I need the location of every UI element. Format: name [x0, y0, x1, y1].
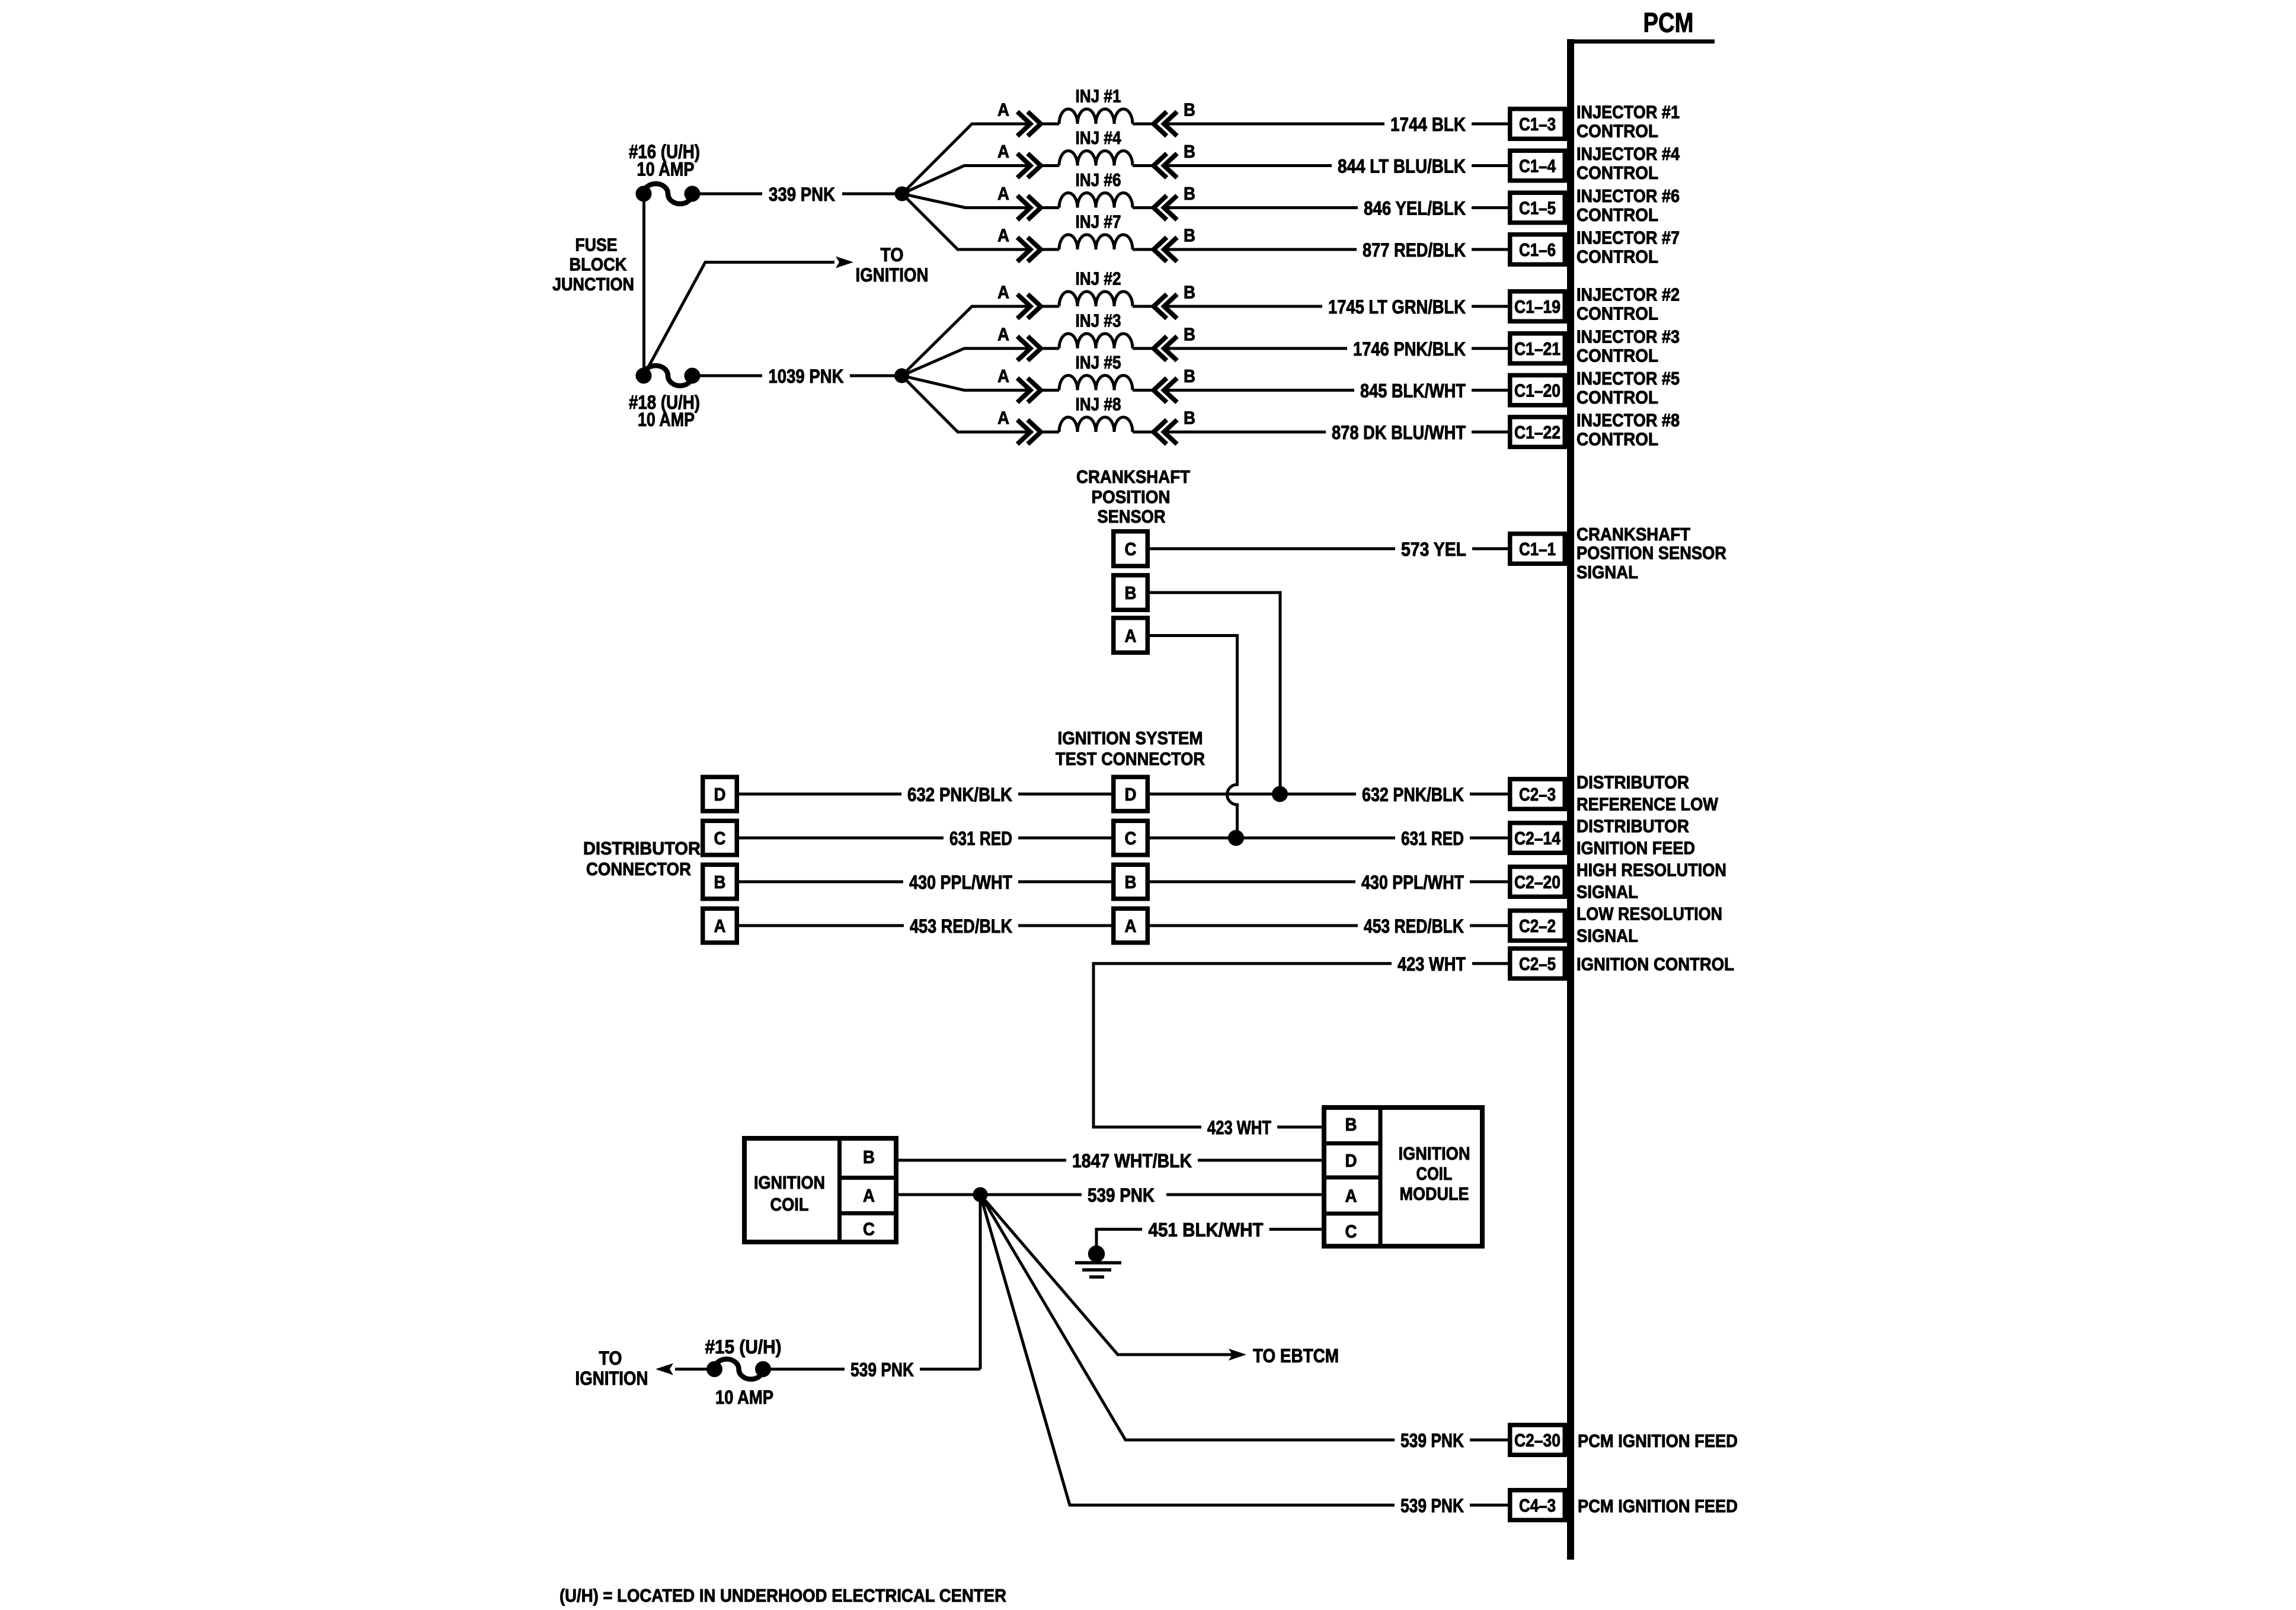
fuse #15 (U/H) 10 AMP — [707, 1359, 771, 1379]
fuse #18 (U/H) 10 AMP — [636, 366, 700, 386]
injector solenoid coil INJ #6 — [1041, 193, 1154, 208]
svg-text:INJ #3: INJ #3 — [1076, 311, 1121, 331]
fuse block junction bus wire — [642, 194, 645, 376]
svg-text:845 BLK/WHT: 845 BLK/WHT — [1360, 380, 1466, 402]
svg-text:INJ #6: INJ #6 — [1076, 169, 1121, 190]
svg-text:A: A — [997, 183, 1009, 204]
svg-text:1745 LT GRN/BLK: 1745 LT GRN/BLK — [1328, 296, 1466, 318]
wire 430 PPL/WHT test connector to PCM C2-20 — [1150, 872, 1508, 893]
injector solenoid coil INJ #2 — [1041, 292, 1154, 306]
wire 539 PNK fuse #15 to splice — [770, 1359, 980, 1381]
svg-text:A: A — [997, 408, 1009, 428]
svg-text:430 PPL/WHT: 430 PPL/WHT — [1361, 872, 1464, 893]
wire fan branch to INJ #6 pin A — [902, 194, 1031, 208]
svg-text:C2–30: C2–30 — [1514, 1430, 1560, 1451]
wire fan branch to INJ #4 pin A — [902, 166, 1031, 194]
PCM top boundary line — [1567, 40, 1715, 44]
svg-text:453 RED/BLK: 453 RED/BLK — [910, 916, 1012, 937]
svg-text:INJ #7: INJ #7 — [1076, 212, 1121, 232]
PCM pin function label INJECTOR #7 CONTROL — [1576, 228, 1680, 267]
wire 1847 WHT/BLK coil B to module D — [898, 1150, 1322, 1172]
svg-text:INJ #8: INJ #8 — [1076, 394, 1121, 415]
svg-text:INJECTOR #1: INJECTOR #1 — [1576, 102, 1680, 123]
svg-text:1744 BLK: 1744 BLK — [1390, 114, 1466, 135]
svg-text:B: B — [1184, 183, 1195, 204]
svg-text:POSITION SENSOR: POSITION SENSOR — [1576, 543, 1726, 564]
wire fan branch to INJ #2 pin A — [902, 306, 1031, 376]
PCM pin function label INJECTOR #6 CONTROL — [1576, 185, 1680, 225]
svg-text:A: A — [997, 225, 1009, 246]
wire label 1039 PNK — [769, 366, 844, 387]
pin label B of INJ #7 — [1184, 225, 1195, 246]
svg-text:INJ #5: INJ #5 — [1076, 352, 1121, 373]
wire 1039 PNK from fuse #18 to splice — [699, 366, 902, 386]
PCM connector terminal C1-19 — [1510, 292, 1565, 322]
ignition coil module terminal A — [1345, 1186, 1357, 1206]
svg-text:423 WHT: 423 WHT — [1398, 953, 1466, 975]
PCM pin function label IGNITION CONTROL — [1576, 954, 1734, 975]
ignition system test connector terminal A — [1114, 908, 1148, 943]
svg-text:C1–22: C1–22 — [1514, 422, 1560, 443]
svg-text:C1–5: C1–5 — [1519, 198, 1556, 219]
svg-text:IGNITION CONTROL: IGNITION CONTROL — [1576, 954, 1734, 975]
wire branch to EBTCM — [980, 1195, 1246, 1361]
fuse #15 label — [705, 1336, 782, 1408]
svg-text:B: B — [1184, 366, 1195, 386]
svg-text:B: B — [1184, 324, 1195, 345]
inline connector chevrons INJ #7 pin A — [1018, 238, 1041, 262]
wire branch to ignition feed arrow — [644, 257, 853, 376]
svg-text:SENSOR: SENSOR — [1098, 506, 1166, 527]
pin label A of INJ #5 — [997, 366, 1009, 386]
distributor connector terminal B — [703, 865, 737, 899]
svg-text:451 BLK/WHT: 451 BLK/WHT — [1149, 1219, 1264, 1241]
ignition coil module component box — [1322, 1105, 1482, 1249]
pin label A of INJ #2 — [997, 282, 1009, 303]
svg-text:632 PNK/BLK: 632 PNK/BLK — [907, 784, 1012, 805]
svg-text:C1–20: C1–20 — [1514, 380, 1560, 401]
wire 631 RED distributor to test connector — [739, 828, 1111, 849]
PCM pin function label INJECTOR #3 CONTROL — [1576, 327, 1680, 366]
wire 631 RED test connector to PCM C2-14 — [1150, 828, 1508, 849]
svg-text:TO EBTCM: TO EBTCM — [1253, 1345, 1339, 1366]
svg-text:B: B — [1345, 1114, 1357, 1135]
svg-text:A: A — [863, 1185, 875, 1206]
inline connector chevrons INJ #4 pin B — [1154, 153, 1178, 178]
svg-text:C1–1: C1–1 — [1519, 539, 1556, 559]
svg-text:631 RED: 631 RED — [1401, 828, 1464, 849]
wire 877 RED/BLK to PCM C1-6 — [1164, 239, 1508, 261]
svg-text:CONTROL: CONTROL — [1576, 345, 1658, 366]
svg-text:A: A — [997, 366, 1009, 386]
pin label B of INJ #3 — [1184, 324, 1195, 345]
wire fan branch to INJ #1 pin A — [902, 124, 1031, 194]
svg-text:INJ #1: INJ #1 — [1076, 86, 1121, 107]
INJ #4 name label — [1076, 127, 1122, 148]
PCM connector terminal C2-5 — [1510, 949, 1565, 979]
distributor connector terminal A — [703, 908, 737, 943]
svg-text:423 WHT: 423 WHT — [1207, 1117, 1271, 1138]
inline connector chevrons INJ #3 pin A — [1018, 337, 1041, 361]
PCM connector terminal C1-20 — [1510, 375, 1565, 405]
wire 632 PNK/BLK distributor to test connector — [739, 784, 1111, 805]
svg-text:C1–21: C1–21 — [1514, 338, 1560, 359]
wire fan branch to INJ #7 pin A — [902, 194, 1031, 249]
ignition system test connector terminal C — [1114, 821, 1148, 855]
svg-text:573 YEL: 573 YEL — [1401, 539, 1466, 560]
svg-text:INJECTOR #3: INJECTOR #3 — [1576, 327, 1680, 347]
fuse #16 (U/H) 10 AMP — [636, 184, 700, 204]
INJ #6 name label — [1076, 169, 1121, 190]
IGNITION COIL MODULE label — [1399, 1143, 1470, 1204]
node: 539 PNK splice at ignition coil A — [973, 1188, 987, 1202]
PCM connector terminal C2-20 — [1510, 867, 1565, 897]
svg-text:INJ #2: INJ #2 — [1076, 268, 1121, 289]
svg-text:CONTROL: CONTROL — [1576, 247, 1658, 267]
svg-text:430 PPL/WHT: 430 PPL/WHT — [909, 872, 1012, 893]
svg-text:A: A — [997, 324, 1009, 345]
wire 430 PPL/WHT distributor to test connector — [739, 872, 1111, 893]
svg-text:HIGH RESOLUTION: HIGH RESOLUTION — [1576, 860, 1726, 881]
PCM connector terminal C1-3 — [1510, 109, 1565, 139]
PCM connector terminal C2-3 — [1510, 779, 1565, 809]
wire 844 LT BLU/BLK to PCM C1-4 — [1164, 156, 1508, 177]
svg-text:C: C — [1345, 1221, 1357, 1242]
pin label B of INJ #1 — [1184, 100, 1195, 120]
svg-text:COIL: COIL — [770, 1194, 809, 1215]
ignition system test connector terminal B — [1114, 865, 1148, 899]
inline connector chevrons INJ #7 pin B — [1154, 238, 1178, 262]
distributor connector terminal C — [703, 821, 737, 855]
crankshaft position sensor terminal B — [1114, 575, 1148, 610]
svg-text:(U/H) = LOCATED IN UNDERHOOD E: (U/H) = LOCATED IN UNDERHOOD ELECTRICAL … — [559, 1585, 1006, 1606]
PCM pin function label DISTRIBUTOR REFERENCE LOW — [1576, 772, 1719, 815]
pin label A of INJ #6 — [997, 183, 1009, 204]
node: splice of 1039 PNK injector feed — [895, 369, 909, 383]
svg-text:PCM: PCM — [1643, 7, 1694, 38]
PCM connector terminal C2-30 — [1510, 1425, 1565, 1455]
PCM boundary vertical line — [1567, 39, 1574, 1560]
svg-text:539 PNK: 539 PNK — [1400, 1495, 1464, 1516]
svg-text:339 PNK: 339 PNK — [769, 184, 835, 205]
svg-text:C2–5: C2–5 — [1519, 953, 1556, 974]
wire 878 DK BLU/WHT to PCM C1-22 — [1164, 422, 1508, 443]
wire 453 RED/BLK test connector to PCM C2-2 — [1150, 916, 1508, 937]
PCM connector terminal C1-22 — [1510, 417, 1565, 447]
wire 423 WHT from ignition coil module B to PCM C2-5 — [1093, 953, 1508, 1138]
PCM connector terminal C1-5 — [1510, 193, 1565, 223]
ignition coil module terminal C — [1345, 1221, 1357, 1242]
ignition coil module terminal D — [1345, 1150, 1357, 1171]
PCM pin function label INJECTOR #2 CONTROL — [1576, 284, 1680, 324]
ignition coil terminal A — [863, 1185, 875, 1206]
ignition coil module terminal B — [1345, 1114, 1357, 1135]
wire fan branch to INJ #5 pin A — [902, 376, 1031, 391]
svg-text:539 PNK: 539 PNK — [1400, 1430, 1464, 1451]
svg-text:INJ #4: INJ #4 — [1076, 127, 1122, 148]
injector solenoid coil INJ #4 — [1041, 151, 1154, 165]
ignition coil component box — [744, 1136, 898, 1244]
ground symbol — [1075, 1246, 1121, 1277]
PCM connector terminal C1-6 — [1510, 235, 1565, 265]
svg-text:877 RED/BLK: 877 RED/BLK — [1363, 239, 1466, 261]
pin label B of INJ #2 — [1184, 282, 1195, 303]
injector solenoid coil INJ #7 — [1041, 235, 1154, 249]
svg-text:TEST CONNECTOR: TEST CONNECTOR — [1056, 748, 1205, 769]
wire 845 BLK/WHT to PCM C1-20 — [1164, 380, 1508, 402]
node: sensor A splice on distributor ignition feed — [1229, 830, 1244, 846]
svg-text:C2–2: C2–2 — [1519, 916, 1556, 936]
PCM pin function label INJECTOR #8 CONTROL — [1576, 410, 1680, 450]
wire 573 YEL from sensor C to PCM C1-1 — [1150, 539, 1508, 560]
INJ #1 name label — [1076, 86, 1121, 107]
svg-text:INJECTOR #5: INJECTOR #5 — [1576, 368, 1680, 389]
svg-text:CONTROL: CONTROL — [1576, 303, 1658, 324]
pin label B of INJ #6 — [1184, 183, 1195, 204]
PCM pin function label INJECTOR #1 CONTROL — [1576, 102, 1680, 142]
pin label A of INJ #7 — [997, 225, 1009, 246]
svg-text:IGNITION: IGNITION — [1399, 1143, 1470, 1164]
svg-text:B: B — [863, 1147, 875, 1167]
svg-text:IGNITION FEED: IGNITION FEED — [1576, 838, 1695, 859]
PCM pin function label CRANKSHAFT POSITION SENSOR SIGNAL — [1576, 524, 1726, 582]
svg-text:C: C — [863, 1219, 875, 1240]
svg-text:C1–3: C1–3 — [1519, 114, 1556, 135]
svg-text:INJECTOR #6: INJECTOR #6 — [1576, 185, 1680, 206]
svg-text:C: C — [1125, 539, 1137, 559]
pin label A of INJ #3 — [997, 324, 1009, 345]
PCM connector terminal C1-4 — [1510, 151, 1565, 181]
inline connector chevrons INJ #1 pin A — [1018, 112, 1041, 136]
wire fan branch to INJ #3 pin A — [902, 348, 1031, 376]
wire splice down to ignition feed fuse #15 — [979, 1195, 982, 1369]
svg-text:539 PNK: 539 PNK — [850, 1359, 914, 1381]
pin label B of INJ #5 — [1184, 366, 1195, 386]
svg-text:A: A — [997, 100, 1009, 120]
pin label A of INJ #4 — [997, 141, 1009, 162]
INJ #5 name label — [1076, 352, 1121, 373]
svg-text:MODULE: MODULE — [1400, 1183, 1469, 1204]
svg-text:CONTROL: CONTROL — [1576, 162, 1658, 183]
svg-text:C: C — [1125, 828, 1137, 849]
svg-text:FUSE: FUSE — [575, 235, 618, 255]
svg-text:B: B — [1184, 282, 1195, 303]
inline connector chevrons INJ #6 pin A — [1018, 196, 1041, 220]
svg-text:A: A — [997, 141, 1009, 162]
svg-text:10 AMP: 10 AMP — [638, 409, 695, 430]
svg-text:DISTRIBUTOR: DISTRIBUTOR — [1576, 816, 1689, 837]
svg-text:C: C — [714, 828, 726, 849]
inline connector chevrons INJ #2 pin A — [1018, 295, 1041, 319]
INJ #8 name label — [1076, 394, 1121, 415]
PCM pin function label PCM IGNITION FEED (C4-3) — [1578, 1496, 1738, 1516]
svg-text:POSITION: POSITION — [1092, 486, 1171, 507]
wire 339 PNK from fuse #16 to splice — [699, 184, 902, 204]
injector solenoid coil INJ #8 — [1041, 417, 1154, 432]
svg-text:CONNECTOR: CONNECTOR — [586, 859, 691, 879]
injector solenoid coil INJ #5 — [1041, 376, 1154, 391]
svg-text:C2–3: C2–3 — [1519, 784, 1556, 805]
svg-text:BLOCK: BLOCK — [570, 254, 628, 275]
svg-text:CONTROL: CONTROL — [1576, 429, 1658, 450]
svg-text:SIGNAL: SIGNAL — [1576, 882, 1638, 902]
inline connector chevrons INJ #1 pin B — [1154, 112, 1178, 136]
IGNITION COIL label — [754, 1172, 825, 1215]
CRANKSHAFT POSITION SENSOR component label — [1076, 466, 1190, 527]
svg-text:B: B — [1184, 100, 1195, 120]
inline connector chevrons INJ #8 pin A — [1018, 420, 1041, 444]
svg-text:1847 WHT/BLK: 1847 WHT/BLK — [1072, 1150, 1192, 1172]
svg-text:B: B — [1184, 408, 1195, 428]
svg-text:IGNITION: IGNITION — [575, 1368, 648, 1389]
wire fan branch to INJ #8 pin A — [902, 376, 1031, 432]
svg-text:INJECTOR #2: INJECTOR #2 — [1576, 284, 1680, 305]
PCM connector terminal C2-2 — [1510, 911, 1565, 941]
PCM pin function label DISTRIBUTOR IGNITION FEED — [1576, 816, 1695, 859]
svg-text:1746 PNK/BLK: 1746 PNK/BLK — [1353, 338, 1466, 360]
inline connector chevrons INJ #5 pin B — [1154, 378, 1178, 402]
svg-text:B: B — [714, 872, 726, 892]
svg-text:632 PNK/BLK: 632 PNK/BLK — [1362, 784, 1464, 805]
fuse #16 label — [629, 141, 700, 180]
IGNITION SYSTEM TEST CONNECTOR component label — [1056, 728, 1205, 769]
svg-text:B: B — [1184, 225, 1195, 246]
inline connector chevrons INJ #6 pin B — [1154, 196, 1178, 220]
svg-text:C2–20: C2–20 — [1514, 872, 1560, 892]
svg-text:CONTROL: CONTROL — [1576, 121, 1658, 142]
svg-text:INJECTOR #7: INJECTOR #7 — [1576, 228, 1680, 248]
svg-text:A: A — [1345, 1186, 1357, 1206]
injector solenoid coil INJ #1 — [1041, 109, 1154, 124]
svg-text:IGNITION SYSTEM: IGNITION SYSTEM — [1058, 728, 1203, 748]
TO IGNITION destination label (bottom) — [575, 1347, 648, 1389]
wire branch 539 PNK to PCM C2-30 — [980, 1195, 1508, 1451]
wire 539 PNK coil A to module A — [898, 1185, 1322, 1206]
svg-text:C1–6: C1–6 — [1519, 239, 1556, 260]
FUSE BLOCK JUNCTION label — [552, 235, 634, 295]
DISTRIBUTOR CONNECTOR component label — [583, 838, 701, 879]
svg-text:878 DK BLU/WHT: 878 DK BLU/WHT — [1332, 422, 1466, 443]
wire from sensor B down to distributor reference low — [1150, 593, 1280, 794]
fuse #18 label — [629, 392, 700, 430]
arrow to ignition — [655, 1363, 707, 1375]
wire from sensor A down to distributor ignition feed (hops row D) — [1150, 636, 1237, 838]
PCM module boundary title — [1643, 7, 1694, 38]
TO EBTCM destination label — [1253, 1345, 1339, 1366]
svg-text:INJECTOR #8: INJECTOR #8 — [1576, 410, 1680, 431]
distributor connector terminal D — [703, 777, 737, 811]
INJ #7 name label — [1076, 212, 1121, 232]
svg-text:DISTRIBUTOR: DISTRIBUTOR — [1576, 772, 1689, 793]
PCM connector terminal C2-14 — [1510, 823, 1565, 853]
wire 1744 BLK to PCM C1-3 — [1164, 114, 1508, 135]
pin label A of INJ #8 — [997, 408, 1009, 428]
svg-text:B: B — [1125, 872, 1137, 892]
svg-text:SIGNAL: SIGNAL — [1576, 562, 1638, 582]
svg-text:846 YEL/BLK: 846 YEL/BLK — [1364, 198, 1466, 219]
svg-text:INJECTOR #4: INJECTOR #4 — [1576, 143, 1680, 164]
PCM pin function label PCM IGNITION FEED — [1578, 1430, 1738, 1451]
injector solenoid coil INJ #3 — [1041, 334, 1154, 348]
ignition coil terminal B — [863, 1147, 875, 1167]
svg-text:C2–14: C2–14 — [1514, 828, 1561, 849]
svg-text:A: A — [997, 282, 1009, 303]
wire 846 YEL/BLK to PCM C1-5 — [1164, 198, 1508, 219]
svg-text:10 AMP: 10 AMP — [715, 1387, 773, 1408]
svg-text:D: D — [1125, 784, 1137, 805]
PCM connector terminal C4-3 — [1510, 1490, 1565, 1521]
inline connector chevrons INJ #5 pin A — [1018, 378, 1041, 402]
wire branch 539 PNK to PCM C4-3 — [980, 1195, 1508, 1516]
svg-text:TO: TO — [881, 244, 904, 265]
svg-text:SIGNAL: SIGNAL — [1576, 926, 1638, 946]
svg-text:CONTROL: CONTROL — [1576, 387, 1658, 408]
wire 451 BLK/WHT module C to ground — [1096, 1219, 1322, 1251]
INJ #2 name label — [1076, 268, 1121, 289]
inline connector chevrons INJ #8 pin B — [1154, 420, 1178, 444]
crankshaft position sensor terminal C — [1114, 532, 1148, 566]
PCM pin function label LOW RESOLUTION SIGNAL — [1576, 904, 1722, 946]
svg-text:A: A — [1125, 626, 1137, 646]
pin label B of INJ #4 — [1184, 141, 1195, 162]
svg-text:LOW RESOLUTION: LOW RESOLUTION — [1576, 904, 1722, 924]
svg-text:D: D — [1345, 1150, 1357, 1171]
crankshaft position sensor terminal A — [1114, 618, 1148, 653]
INJ #3 name label — [1076, 311, 1121, 331]
svg-text:453 RED/BLK: 453 RED/BLK — [1364, 916, 1464, 937]
svg-text:10 AMP: 10 AMP — [637, 159, 695, 180]
svg-text:C1–19: C1–19 — [1514, 296, 1560, 317]
wire 453 RED/BLK distributor to test connector — [739, 916, 1111, 937]
PCM connector terminal C1-1 — [1510, 534, 1565, 564]
svg-text:A: A — [1125, 916, 1137, 936]
pin label A of INJ #1 — [997, 100, 1009, 120]
svg-text:CRANKSHAFT: CRANKSHAFT — [1076, 466, 1190, 487]
svg-text:631 RED: 631 RED — [949, 828, 1012, 849]
TO IGNITION destination label (top) — [856, 244, 929, 286]
PCM pin function label HIGH RESOLUTION SIGNAL — [1576, 860, 1726, 902]
svg-text:PCM IGNITION FEED: PCM IGNITION FEED — [1578, 1430, 1738, 1451]
pin label B of INJ #8 — [1184, 408, 1195, 428]
svg-text:B: B — [1125, 582, 1137, 603]
svg-text:844 LT BLU/BLK: 844 LT BLU/BLK — [1338, 156, 1466, 177]
svg-text:IGNITION: IGNITION — [754, 1172, 825, 1193]
wire 1746 PNK/BLK to PCM C1-21 — [1164, 338, 1508, 360]
svg-text:C1–4: C1–4 — [1519, 156, 1556, 177]
wire 632 PNK/BLK test connector to PCM C2-3 — [1150, 784, 1508, 805]
wire 1745 LT GRN/BLK to PCM C1-19 — [1164, 296, 1508, 318]
svg-text:IGNITION: IGNITION — [856, 264, 929, 286]
inline connector chevrons INJ #2 pin B — [1154, 295, 1178, 319]
svg-text:PCM IGNITION FEED: PCM IGNITION FEED — [1578, 1496, 1738, 1516]
PCM connector terminal C1-21 — [1510, 334, 1565, 364]
footnote (U/H) legend — [559, 1585, 1006, 1606]
svg-text:DISTRIBUTOR: DISTRIBUTOR — [583, 838, 701, 859]
wire label 339 PNK — [769, 184, 835, 205]
svg-text:CONTROL: CONTROL — [1576, 204, 1658, 225]
ignition coil terminal C — [863, 1219, 875, 1240]
svg-text:REFERENCE LOW: REFERENCE LOW — [1576, 794, 1719, 815]
svg-text:1039 PNK: 1039 PNK — [769, 366, 844, 387]
svg-text:CRANKSHAFT: CRANKSHAFT — [1576, 524, 1690, 545]
inline connector chevrons INJ #3 pin B — [1154, 337, 1178, 361]
PCM pin function label INJECTOR #5 CONTROL — [1576, 368, 1680, 408]
svg-text:TO: TO — [599, 1347, 622, 1369]
svg-text:D: D — [714, 784, 726, 805]
svg-text:#15 (U/H): #15 (U/H) — [705, 1336, 782, 1358]
svg-text:JUNCTION: JUNCTION — [552, 274, 634, 295]
node: sensor B splice on distributor reference low — [1272, 786, 1288, 802]
